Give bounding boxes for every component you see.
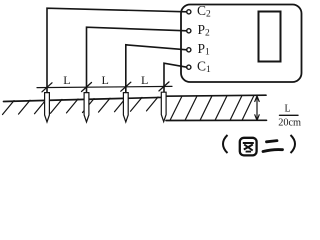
terminal P1 <box>187 48 191 52</box>
electrode rod 4 <box>161 92 166 121</box>
svg-text:L: L <box>63 73 70 87</box>
terminal P2 <box>187 29 191 33</box>
terminal C1 <box>187 65 191 69</box>
op: earth tester instrument box <box>181 5 302 83</box>
caption close paren <box>291 135 296 153</box>
svg-text:C1: C1 <box>197 58 211 75</box>
trench band top line <box>166 95 266 96</box>
svg-text:P1: P1 <box>198 41 211 58</box>
caption character tu (figure) <box>240 138 257 156</box>
wire P2 <box>87 27 187 93</box>
wire C2 <box>47 8 187 93</box>
svg-text:P2: P2 <box>198 22 211 39</box>
dimension slash at electrode 4 <box>159 82 169 91</box>
dimension slash at electrode 2 <box>82 83 92 92</box>
trench band bottom line <box>166 119 267 121</box>
wire C1 <box>164 63 187 92</box>
meter window rectangle <box>259 12 281 62</box>
electrode rod 1 <box>45 93 50 122</box>
caption character er (two) <box>263 141 283 152</box>
ground surface line (left section) <box>4 97 166 101</box>
svg-text:L: L <box>102 73 109 87</box>
svg-text:20cm: 20cm <box>278 118 301 129</box>
fraction bar of L/20cm <box>280 114 299 116</box>
svg-text:L: L <box>285 104 291 115</box>
ground hatching left section <box>3 97 159 115</box>
wire P1 <box>126 45 187 93</box>
terminal C2 <box>187 10 191 14</box>
dimension slash at electrode 3 <box>121 82 131 91</box>
electrode rod 2 <box>84 93 89 122</box>
caption open paren <box>223 135 228 153</box>
depth dimension line with arrows <box>255 96 259 120</box>
svg-text:L: L <box>141 73 148 87</box>
electrode rod 3 <box>123 93 128 122</box>
spacing dimension line <box>37 86 172 87</box>
dimension slash at electrode 1 <box>42 83 52 92</box>
trench band hatching <box>170 95 254 120</box>
